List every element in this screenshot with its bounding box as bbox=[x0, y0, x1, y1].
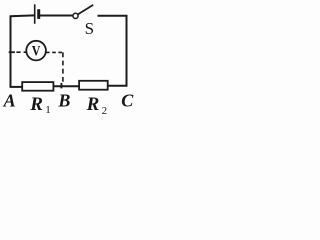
wire: dashed voltmeter lead right horizontal bbox=[46, 51, 64, 53]
switch S: lever arm (open) bbox=[78, 5, 93, 15]
resistor R2 box bbox=[79, 81, 108, 90]
voltmeter U1: circle bbox=[26, 41, 46, 61]
svg-text:A: A bbox=[3, 91, 16, 111]
wire: battery to switch bbox=[40, 15, 73, 17]
switch S: pivot circle bbox=[73, 13, 78, 18]
node on left wire: junction tick for voltmeter lead bbox=[9, 51, 15, 53]
wire: left vertical (A to battery) bbox=[10, 16, 12, 88]
battery cell: short thick plate bbox=[37, 9, 40, 19]
wire: right vertical (C side) bbox=[126, 16, 128, 86]
svg-text:C: C bbox=[121, 91, 134, 111]
wire: switch to top-right corner bbox=[98, 15, 128, 17]
wire: dashed voltmeter lead vertical down to B bbox=[62, 52, 64, 82]
wire: bottom right segment (R2 to C) bbox=[108, 85, 128, 87]
resistor R1 box bbox=[22, 82, 53, 91]
wire: bottom middle segment (R1 to R2 through B) bbox=[53, 85, 79, 87]
svg-text:V: V bbox=[32, 42, 41, 59]
battery cell: long thin plate bbox=[34, 4, 36, 24]
svg-text:B: B bbox=[57, 91, 70, 111]
wire: top-left horizontal to battery bbox=[10, 14, 35, 17]
node B junction tick bbox=[60, 83, 62, 89]
svg-text:R: R bbox=[86, 94, 100, 115]
wire: bottom left segment (A to R1) bbox=[10, 86, 23, 88]
svg-text:1: 1 bbox=[45, 104, 51, 116]
svg-text:R: R bbox=[29, 94, 43, 115]
svg-text:2: 2 bbox=[102, 105, 108, 117]
voltmeter U1: V symbol bbox=[32, 42, 41, 59]
svg-text:S: S bbox=[85, 19, 94, 38]
wire: dashed voltmeter lead left bbox=[16, 51, 26, 53]
